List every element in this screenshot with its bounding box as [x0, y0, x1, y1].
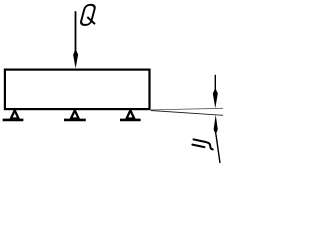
force Q arrowhead [73, 49, 78, 69]
support 2 ground line [64, 119, 86, 122]
label Q [80, 5, 96, 25]
support 1 ground line [3, 119, 24, 122]
dimension line lower segment [216, 134, 220, 164]
dimension arrow down [213, 88, 218, 108]
label y (rotated) [192, 139, 212, 149]
dimension line upper segment [214, 75, 216, 92]
support 3 triangle [127, 110, 135, 118]
support 3 ground line [120, 119, 141, 122]
support 2 triangle [71, 110, 79, 118]
beam (rectangle) [5, 70, 150, 110]
force Q arrow shaft [75, 11, 77, 51]
support 1 triangle [11, 110, 19, 118]
reference line (undeflected) [151, 108, 223, 110]
deflected beam line [151, 111, 223, 116]
dimension arrow up [214, 115, 218, 135]
